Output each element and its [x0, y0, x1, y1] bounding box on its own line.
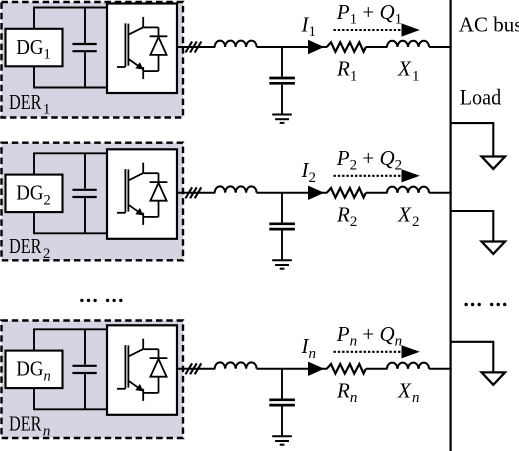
wire: resistor to inductor X2 — [366, 192, 388, 194]
filter inductor (row 2) — [215, 186, 257, 192]
load branch 2 (wire) — [451, 211, 494, 242]
line-break marks /// — [186, 187, 202, 198]
inverter U2 (box) — [107, 149, 177, 239]
current arrow In — [308, 362, 324, 376]
wire: DG2 bottom loop to inverter — [34, 212, 107, 233]
DC-link capacitor (row 3) — [72, 329, 96, 409]
IGBT switch (row 3) — [117, 339, 159, 401]
svg-text:I2: I2 — [301, 158, 317, 186]
line-break marks /// — [186, 363, 202, 374]
resistor Rn — [327, 364, 366, 374]
wire: inverter output — [177, 192, 215, 194]
ground (row 3) — [272, 436, 292, 444]
load branch 1 (wire) — [451, 123, 494, 156]
DER1 block (dashed box) — [2, 2, 184, 118]
svg-text:X1: X1 — [397, 57, 420, 85]
svg-text:Rn: Rn — [336, 379, 357, 407]
svg-text:X2: X2 — [397, 203, 420, 231]
resistor R1 — [327, 42, 366, 52]
shunt filter capacitor (row 1) — [269, 47, 295, 114]
power flow arrow P2+Q2 — [334, 169, 420, 182]
current arrow I2 — [308, 186, 324, 200]
freewheeling diode (row 3) — [150, 349, 168, 393]
wire: DGn top loop to inverter — [34, 329, 107, 350]
DG source DGn — [6, 351, 63, 389]
filter inductor (row 3) — [215, 362, 257, 368]
DG source DG2 — [6, 175, 63, 213]
shunt filter capacitor (row 2) — [269, 193, 295, 260]
DER2 block (dashed box) — [2, 143, 184, 261]
svg-text:I1: I1 — [301, 12, 317, 40]
wire: DG1 bottom loop to inverter — [34, 66, 107, 87]
svg-text:AC bus: AC bus — [459, 13, 519, 37]
wire: inductor to resistor R1 — [257, 46, 327, 48]
ground (row 2) — [272, 260, 292, 268]
wire: DGn bottom loop to inverter — [34, 388, 107, 409]
load arrow 2 (open triangle) — [482, 242, 505, 254]
AC bus (vertical line) — [450, 0, 452, 451]
load branch 3 (wire) — [451, 342, 494, 373]
wire: inverter output — [177, 46, 215, 48]
svg-text:P2 + Q2: P2 + Q2 — [336, 146, 402, 174]
line inductor Xn — [387, 363, 429, 369]
ground (row 1) — [272, 115, 292, 123]
ellipsis between DER2 and DERn (left) — [80, 299, 122, 302]
freewheeling diode (row 2) — [150, 173, 168, 217]
svg-text:R2: R2 — [336, 203, 357, 231]
svg-text:Xn: Xn — [397, 379, 420, 407]
wire: DG1 top loop to inverter — [34, 8, 107, 29]
svg-text:R1: R1 — [336, 57, 357, 85]
wire: DG2 top loop to inverter — [34, 153, 107, 174]
IGBT switch (row 1) — [117, 17, 159, 79]
wire: resistor to inductor Xn — [366, 368, 388, 370]
current arrow I1 — [308, 40, 324, 54]
wire: X1 to AC bus — [429, 46, 452, 48]
svg-text:In: In — [301, 334, 317, 362]
line inductor X1 — [387, 41, 429, 47]
svg-text:Pn + Qn: Pn + Qn — [336, 322, 402, 350]
power flow arrow Pn+Qn — [334, 345, 420, 358]
inverter Un (box) — [107, 325, 177, 415]
DC-link capacitor (row 2) — [72, 153, 96, 233]
load arrow 1 (open triangle) — [482, 157, 505, 169]
ellipsis on AC bus loads (right) — [464, 303, 506, 306]
freewheeling diode (row 1) — [150, 27, 168, 71]
wire: Xn to AC bus — [429, 368, 452, 370]
svg-text:P1 + Q1: P1 + Q1 — [336, 0, 402, 28]
resistor R2 — [327, 188, 366, 198]
svg-text:Load: Load — [460, 85, 502, 110]
wire: inductor to resistor R2 — [257, 192, 327, 194]
line inductor X2 — [387, 187, 429, 193]
shunt filter capacitor (row 3) — [269, 369, 295, 436]
inverter U1 (box) — [107, 4, 177, 94]
DC-link capacitor (row 1) — [72, 8, 96, 88]
wire: X2 to AC bus — [429, 192, 452, 194]
DERn block (dashed box) — [2, 321, 184, 439]
DG source DG1 — [6, 29, 63, 67]
wire: inductor to resistor Rn — [257, 368, 327, 370]
wire: inverter output — [177, 368, 215, 370]
IGBT switch (row 2) — [117, 163, 159, 225]
power flow arrow P1+Q1 — [334, 23, 420, 36]
line-break marks /// — [186, 42, 202, 53]
load arrow 3 (open triangle) — [482, 372, 505, 384]
filter inductor (row 1) — [215, 41, 257, 47]
wire: resistor to inductor X1 — [366, 46, 388, 48]
